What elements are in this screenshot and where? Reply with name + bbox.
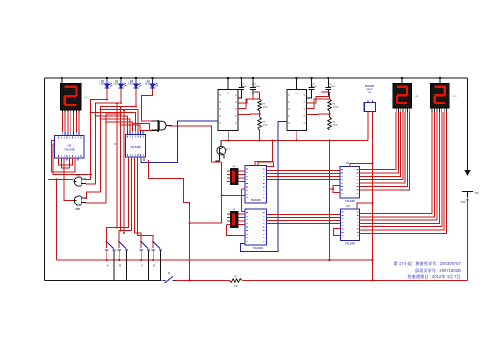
wire feed switch A: [107, 157, 129, 248]
switch C: [141, 241, 149, 249]
svg-text:LED: LED: [99, 83, 104, 86]
svg-text:B: B: [119, 264, 121, 268]
capacitor C1: [240, 78, 242, 87]
wire C3 C4 to 555 U10: [307, 95, 312, 98]
7-segment display U4: [61, 84, 82, 111]
capacitor C4: [327, 78, 329, 87]
wire U6 LT BI loop: [334, 229, 341, 236]
wire J2 to U5A: [238, 213, 245, 215]
svg-text:A9C5: A9C5: [226, 148, 232, 151]
7-segment display U8: [393, 84, 412, 109]
svg-text:第 17小组 黄俊秀学号 : 200309787: 第 17小组 黄俊秀学号 : 200309787: [394, 260, 462, 267]
wire display U8 pin stubs: [395, 108, 397, 112]
wire left rail: [44, 78, 46, 281]
svg-text:20kΩ: 20kΩ: [333, 125, 338, 127]
wire R4 bottom to y142: [259, 130, 261, 140]
wire mesh drop 3: [123, 111, 125, 234]
wire U2 bottom pin stubs: [58, 158, 60, 161]
wire U1 VCC stub: [350, 163, 373, 166]
wire bundle U1 outputs to display U8: [360, 112, 397, 170]
svg-text:VDD: VDD: [460, 201, 465, 204]
power bar VDD symbol: [462, 191, 473, 193]
wire mesh to gate U7B lower input: [86, 114, 121, 203]
svg-text:74LS48: 74LS48: [345, 242, 355, 246]
wire LED D4 to AND gate: [142, 89, 153, 121]
svg-text:74LS160: 74LS160: [130, 145, 141, 149]
wire display U8 VCC: [401, 78, 403, 84]
svg-text:0.39uF: 0.39uF: [254, 86, 261, 88]
IC U10 555 timer: [287, 90, 307, 131]
wire U2 to gate U7A output line: [48, 179, 73, 181]
svg-text:<TEXT>: <TEXT>: [366, 88, 375, 91]
IC U5A 74LS160 counter: [245, 209, 267, 245]
svg-text:U7A: U7A: [75, 174, 80, 177]
wire J4 to U4A: [238, 170, 245, 172]
wire blue net 555 trigger to U9: [141, 121, 218, 163]
svg-text:C: C: [141, 264, 143, 268]
capacitor C2: [252, 78, 254, 87]
LED D1: [106, 78, 108, 84]
switch D: [153, 241, 161, 249]
wire 555 U3 VCC: [227, 78, 229, 90]
node VDD junction: [466, 199, 468, 201]
wire display U11 pin stubs: [431, 108, 433, 112]
svg-text:5V: 5V: [475, 191, 479, 195]
wire bundle U4A outputs to U1: [267, 169, 341, 171]
svg-text:U7B: U7B: [75, 208, 80, 211]
wire mesh drop 1: [116, 104, 118, 228]
wire branch to U5A lower pin: [226, 225, 245, 236]
resistor R5 100k: [329, 92, 331, 99]
IC U9 74LS160: [126, 135, 146, 158]
7-segment display U11: [431, 84, 450, 109]
svg-text:A: A: [107, 264, 109, 268]
wire ground bottom-left rail: [45, 280, 162, 282]
wire gate U7B output to U2: [64, 158, 73, 201]
wire collector-buzzer line y140: [221, 139, 368, 141]
svg-text:LED: LED: [113, 83, 118, 86]
wire 555 U10 VCC: [296, 78, 298, 90]
wire 555 U10 trigger blue net to U5: [241, 121, 288, 251]
svg-text:30pF: 30pF: [312, 86, 317, 88]
switch B: [119, 241, 127, 249]
wire U2 bottom loops: [59, 158, 73, 165]
logic gate U7A: [74, 177, 81, 186]
svg-text:U9: U9: [114, 142, 118, 146]
svg-text:D: D: [153, 264, 155, 268]
wire buzzer right leg down: [372, 112, 374, 281]
IC U2 74LS48: [55, 136, 85, 159]
wire LED D1 to gate U7A: [86, 89, 108, 179]
wire buzzer left leg: [367, 112, 369, 141]
svg-text:100kΩ: 100kΩ: [333, 107, 340, 109]
resistor R1 1k: [229, 278, 243, 283]
svg-text:74LS160: 74LS160: [251, 199, 262, 202]
switch J1: [165, 276, 173, 283]
wire switch common line y260: [57, 259, 373, 261]
wire U6 VCC stub: [357, 203, 373, 209]
wire Q1 emitter legs: [219, 155, 221, 161]
wire U2 top pin stubs: [61, 132, 63, 136]
svg-text:BUZZER: BUZZER: [365, 86, 375, 88]
capacitor C3: [311, 78, 313, 87]
transistor Q1: [217, 146, 226, 155]
wire J2 pin stubs: [227, 213, 231, 215]
wire J4 pin stubs: [227, 170, 231, 172]
svg-text:50kΩ: 50kΩ: [263, 125, 268, 127]
wire feed switch B: [119, 157, 131, 248]
switch A: [106, 241, 114, 249]
wire mesh to AND gate inputs: [121, 125, 152, 131]
svg-text:10kΩ: 10kΩ: [263, 107, 268, 109]
wire bundle U5A outputs to U6: [267, 213, 341, 215]
wire emitter net vertical: [190, 162, 222, 223]
IC U6 74LS48 decoder: [341, 209, 360, 241]
connector J2: [231, 212, 239, 228]
resistor R4 50k: [259, 111, 261, 117]
logic gate U7B: [74, 196, 81, 205]
wire U9 bottom stubs: [143, 157, 145, 161]
wire R3 top: [253, 91, 260, 93]
LED D2: [120, 78, 122, 84]
IC U3 555 timer: [218, 90, 238, 131]
svg-text:0.39uF: 0.39uF: [329, 86, 336, 88]
wire LED D2 to gate U7A: [86, 89, 122, 184]
wire U1 LT BI loop: [333, 186, 340, 193]
wire display U11 VCC: [439, 78, 441, 84]
svg-text:12V: 12V: [368, 92, 372, 94]
svg-text:LED: LED: [145, 83, 150, 86]
wire U9 RCO staircase to bottom: [149, 160, 190, 281]
wire LED D3 to gate U7B: [86, 89, 137, 198]
IC U1 74LS48 decoder: [340, 167, 360, 199]
wire VCC top rail: [45, 77, 468, 79]
svg-text:LED: LED: [128, 83, 133, 86]
svg-text:30pF: 30pF: [242, 86, 247, 88]
AND gate U8A: [159, 121, 166, 130]
wire bundle U6 outputs to display U11: [360, 112, 433, 214]
svg-text:检查通报日 : 2012年 4月 7日: 检查通报日 : 2012年 4月 7日: [408, 273, 461, 280]
wire feed switch D: [138, 157, 154, 248]
wire R5 top: [321, 91, 330, 93]
svg-text:1kΩ: 1kΩ: [234, 285, 238, 287]
wire display U4 to VCC rail: [61, 78, 63, 84]
wire 555 U10 bottom to y142: [296, 131, 298, 141]
LED D4: [152, 78, 154, 84]
wire 555 U3 output pin down: [228, 131, 230, 141]
svg-text:74LS48: 74LS48: [64, 148, 75, 152]
wire bottom supply line: [176, 280, 468, 282]
wire mesh drop 2: [120, 107, 122, 231]
wire 555 U10 pin loops to R5 R6: [307, 99, 330, 109]
wire C1 C2 to 555 U3: [238, 95, 241, 98]
wire AND gate output red to Q1 emitter: [169, 126, 222, 162]
IC U4A 74LS160 counter: [245, 166, 267, 204]
connector J4: [231, 169, 239, 185]
wire clock loop box: [258, 140, 273, 166]
resistor R3 10k: [259, 92, 261, 99]
wire feed switch C: [135, 157, 142, 248]
svg-text:74LS160: 74LS160: [253, 247, 264, 250]
resistor R6 20k: [329, 111, 331, 117]
LED D3: [135, 78, 137, 84]
wire gate output drop x56: [56, 180, 58, 260]
svg-text:74LS48: 74LS48: [345, 199, 355, 203]
wire VDD down right side: [467, 200, 469, 281]
wire U9 top pin stubs: [127, 131, 129, 135]
wire branch to U4A lower pin: [222, 194, 245, 196]
power arrow to VDD (right): [467, 78, 469, 171]
wire resistor chain2 drop x329: [329, 140, 331, 260]
wire mesh to U9 pin feeds: [96, 116, 128, 131]
wire 555 U3 pin loops to R3 R4: [238, 99, 260, 109]
wire bundle display U4 pins to U2: [61, 110, 63, 113]
wire U4A to U5A carry: [242, 189, 246, 212]
wire Q1 collector to line: [220, 140, 222, 146]
wire U4A VCC stub: [255, 162, 272, 166]
